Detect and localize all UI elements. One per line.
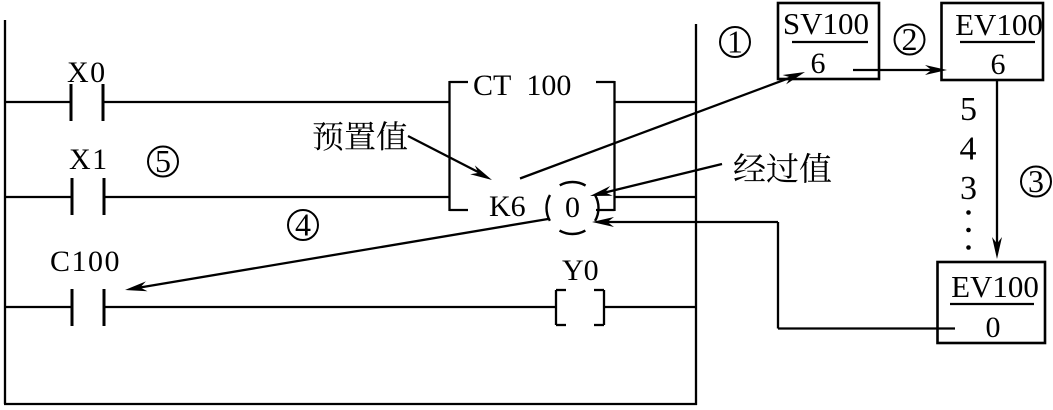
svg-text:2: 2 (902, 21, 918, 57)
svg-text:3: 3 (960, 170, 977, 207)
svg-text:0: 0 (986, 311, 1001, 344)
svg-text:0: 0 (565, 191, 580, 224)
svg-text:5: 5 (960, 91, 977, 128)
svg-text:4: 4 (960, 131, 977, 168)
svg-text:6: 6 (811, 47, 826, 80)
svg-text:EV100: EV100 (951, 269, 1039, 304)
svg-text:4: 4 (295, 207, 311, 243)
svg-text:CT 100: CT 100 (473, 69, 571, 102)
svg-text:X1: X1 (69, 143, 109, 176)
svg-text:EV100: EV100 (955, 7, 1043, 42)
svg-text:5: 5 (155, 143, 171, 179)
svg-text:Y0: Y0 (562, 254, 599, 287)
svg-text:K6: K6 (489, 190, 526, 223)
svg-text:C100: C100 (50, 245, 121, 278)
svg-text:1: 1 (727, 24, 743, 60)
svg-text:3: 3 (1028, 163, 1044, 199)
svg-text:SV100: SV100 (783, 6, 869, 41)
svg-text:6: 6 (991, 48, 1006, 81)
svg-text:X0: X0 (67, 56, 107, 89)
